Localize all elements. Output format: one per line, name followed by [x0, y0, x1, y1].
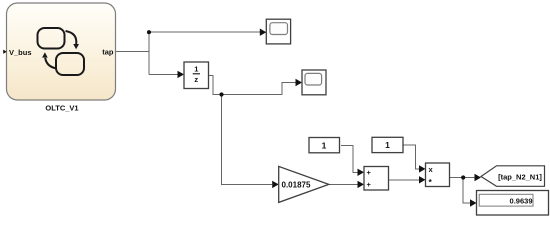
svg-text:+: + — [367, 168, 372, 177]
svg-text:V_bus: V_bus — [9, 48, 32, 57]
svg-text:1: 1 — [194, 65, 198, 74]
svg-text:1: 1 — [385, 140, 390, 150]
svg-text:tap: tap — [102, 48, 114, 57]
svg-text:[tap_N2_N1]: [tap_N2_N1] — [498, 173, 542, 182]
svg-text:+: + — [367, 180, 372, 189]
svg-text:OLTC_V1: OLTC_V1 — [45, 104, 78, 113]
svg-text:0.01875: 0.01875 — [282, 180, 311, 189]
svg-text:1: 1 — [322, 140, 327, 150]
svg-text:0.9639: 0.9639 — [510, 196, 533, 205]
svg-text:z: z — [194, 75, 198, 84]
